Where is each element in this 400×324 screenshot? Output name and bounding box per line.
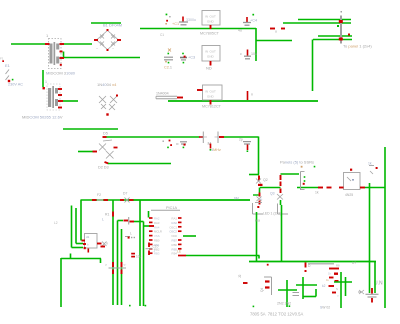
svg-text:Q4: Q4 xyxy=(260,288,264,292)
T1 pin xyxy=(45,43,50,45)
cap C15 marks xyxy=(131,254,141,259)
wire xyxy=(75,208,77,244)
svg-text:~: ~ xyxy=(96,47,98,51)
svg-text:IN OUT: IN OUT xyxy=(205,15,216,19)
capacitor C4 xyxy=(238,17,257,33)
cap C6 xyxy=(176,142,187,148)
svg-text:.1: .1 xyxy=(153,249,156,253)
JP1 green dot xyxy=(337,25,339,27)
wire xyxy=(281,205,283,262)
red dot xyxy=(267,264,269,266)
wire xyxy=(298,19,351,21)
U4 pin xyxy=(82,240,86,242)
capacitor C5 xyxy=(240,50,257,59)
svg-text:rea: rea xyxy=(255,219,260,223)
svg-text:LED 1 (2x2): LED 1 (2x2) xyxy=(263,212,281,216)
wire xyxy=(183,235,196,237)
wire xyxy=(64,57,141,59)
B2 pin dot xyxy=(106,113,108,115)
svg-text:k2: k2 xyxy=(322,284,326,288)
svg-text:F2: F2 xyxy=(97,193,101,197)
JP1 pin blob xyxy=(339,20,343,23)
svg-text:b: b xyxy=(87,243,89,247)
svg-text:4N25: 4N25 xyxy=(345,193,353,197)
pin dot xyxy=(305,270,307,272)
svg-text:L2: L2 xyxy=(54,221,58,225)
wire xyxy=(143,222,145,307)
red pin column right xyxy=(329,269,337,293)
svg-text:B1 DF04M: B1 DF04M xyxy=(103,23,122,28)
wire xyxy=(60,258,62,307)
wire DC rail xyxy=(140,28,256,30)
B1 pin dot xyxy=(107,49,109,51)
crystal Q1 xyxy=(199,132,224,153)
svg-text:+C4: +C4 xyxy=(250,19,257,23)
svg-text:GND: GND xyxy=(207,95,215,99)
svg-text:OSC2: OSC2 xyxy=(169,230,177,234)
U3 pin xyxy=(210,100,212,105)
svg-text:Panels (5) to SSRs: Panels (5) to SSRs xyxy=(280,160,314,165)
wire xyxy=(255,28,257,61)
capacitor C12 pin xyxy=(247,91,249,100)
svg-text:MC7805CT: MC7805CT xyxy=(200,31,220,35)
transistor Q4 bracket xyxy=(264,277,272,295)
wire long right xyxy=(384,147,386,308)
wire xyxy=(312,40,314,92)
svg-text:D7: D7 xyxy=(123,192,127,196)
Q4 pins xyxy=(265,280,270,282)
svg-text:o: o xyxy=(337,294,339,298)
wire xyxy=(315,289,317,297)
svg-text:MCLR: MCLR xyxy=(154,230,162,234)
green dot xyxy=(253,306,255,308)
connector JP1 bar xyxy=(340,16,342,44)
T2 pin xyxy=(58,88,62,90)
svg-text:RA4: RA4 xyxy=(154,225,160,229)
wire arm xyxy=(249,174,259,176)
net flag marks xyxy=(160,14,254,37)
optocoupler U6 xyxy=(344,169,361,197)
AC terminal E1 xyxy=(0,57,23,87)
svg-text:RB0: RB0 xyxy=(154,239,160,243)
U6 pin xyxy=(339,187,344,189)
svg-text:RA1: RA1 xyxy=(172,217,178,221)
wire long to driver xyxy=(186,255,260,257)
svg-text:C2.1: C2.1 xyxy=(164,66,172,70)
svg-text:1k: 1k xyxy=(368,162,372,166)
green dot xyxy=(289,305,291,307)
wire xyxy=(258,137,260,175)
diode D2 pin xyxy=(93,151,98,153)
wire corner xyxy=(258,256,260,259)
U5 right pin labels xyxy=(169,217,177,256)
filter cap C3 xyxy=(180,53,195,64)
svg-text:>: > xyxy=(105,263,107,267)
wire GND rail xyxy=(249,261,376,263)
diode cluster B2 xyxy=(99,96,117,110)
wire xyxy=(71,206,73,248)
wire xyxy=(112,216,114,305)
svg-text:1k: 1k xyxy=(315,191,319,195)
wire xyxy=(334,281,352,283)
red blob xyxy=(335,280,339,282)
T2 pin dot xyxy=(43,87,45,89)
gray dash xyxy=(358,291,362,293)
JP1 red dot xyxy=(348,34,350,36)
U4 diode mark xyxy=(102,242,107,247)
U4 pin dot xyxy=(84,247,86,249)
wire pin xyxy=(103,136,107,138)
svg-text:D: D xyxy=(308,264,311,268)
B2 red dot xyxy=(116,95,118,97)
svg-text:R8: R8 xyxy=(336,264,340,268)
svg-text:230V AC: 230V AC xyxy=(8,82,23,86)
wire xyxy=(144,225,150,227)
resistor R7 bar xyxy=(308,263,334,265)
svg-text:RB6: RB6 xyxy=(172,243,178,247)
B1 pin xyxy=(94,39,98,41)
wire xyxy=(63,100,78,102)
wire xyxy=(130,221,135,223)
wire xyxy=(118,220,124,222)
svg-text:1N4004: 1N4004 xyxy=(156,92,169,96)
cap C13 pin xyxy=(124,220,129,222)
svg-text:ND: ND xyxy=(206,66,212,71)
B1 pin dot xyxy=(107,29,109,31)
svg-text:Q2: Q2 xyxy=(263,178,268,182)
svg-text:D2 D3: D2 D3 xyxy=(98,166,109,170)
wire xyxy=(78,151,93,153)
R7 pin xyxy=(334,268,339,270)
wire xyxy=(340,272,342,308)
svg-text:1k: 1k xyxy=(328,272,332,276)
wire xyxy=(256,212,258,262)
svg-text:L: L xyxy=(261,197,263,201)
U4 pin xyxy=(97,243,102,245)
JP1 pin blob xyxy=(339,38,343,41)
svg-text:IN OUT: IN OUT xyxy=(205,50,216,54)
relay K1 bracket xyxy=(301,166,316,190)
svg-text:S: S xyxy=(336,287,338,291)
svg-text:MIDCOM 31080: MIDCOM 31080 xyxy=(46,71,76,76)
svg-text:MC7812CT: MC7812CT xyxy=(202,105,222,109)
wire VDD rail xyxy=(133,199,250,201)
svg-text:1N4004 x4: 1N4004 x4 xyxy=(97,82,117,87)
resistor R1 pin xyxy=(112,212,114,217)
U5 right pins xyxy=(178,218,186,256)
green dots bottom xyxy=(129,305,131,307)
wire xyxy=(296,284,317,286)
svg-text:7805 5A 7812 TO2 12V0.5A: 7805 5A 7812 TO2 12V0.5A xyxy=(250,311,303,316)
U1 pin xyxy=(210,25,212,29)
T2 pin xyxy=(58,100,63,102)
T1 pin dot xyxy=(60,64,62,66)
wire xyxy=(72,247,84,249)
svg-text:1: 1 xyxy=(46,33,49,38)
wire xyxy=(117,221,119,306)
wire xyxy=(369,183,371,293)
cap C13 plate xyxy=(128,217,130,225)
U4 pin xyxy=(83,243,86,245)
svg-text:GND: GND xyxy=(207,55,215,59)
fuse link F2 xyxy=(92,193,108,200)
svg-text:n: n xyxy=(106,242,108,246)
diode D6 xyxy=(156,92,183,99)
wire xyxy=(134,221,144,223)
svg-text:+C3: +C3 xyxy=(188,56,195,60)
wire xyxy=(278,289,297,291)
wire xyxy=(345,277,347,296)
svg-text:4u: 4u xyxy=(238,29,242,33)
svg-text:U?: U? xyxy=(352,261,356,265)
resistor R6 pins xyxy=(315,188,332,195)
U4 pin xyxy=(87,249,89,253)
svg-text:VDD: VDD xyxy=(171,234,177,238)
wire xyxy=(81,199,129,201)
green dot xyxy=(145,305,147,307)
D3 pin xyxy=(105,162,109,164)
labels right column xyxy=(326,264,340,298)
wire xyxy=(63,52,65,58)
misc opto marks xyxy=(368,162,378,175)
capacitor C14 xyxy=(366,288,379,303)
svg-text:PIC1A: PIC1A xyxy=(166,206,177,210)
wire xyxy=(121,229,123,305)
series link pins on rail xyxy=(270,28,275,30)
wire xyxy=(256,40,292,42)
wire stub xyxy=(70,254,72,259)
svg-text:SW 02: SW 02 xyxy=(320,306,330,310)
IC U5 PIC16F84 xyxy=(151,206,180,210)
wire cross1 xyxy=(286,280,288,307)
wire xyxy=(303,296,316,298)
wire xyxy=(76,243,83,245)
svg-text:c: c xyxy=(240,52,242,56)
T1 pin xyxy=(60,51,63,53)
svg-text:Q3: Q3 xyxy=(270,192,275,196)
JP1 gray dot xyxy=(341,11,343,13)
series link pin xyxy=(281,28,285,30)
svg-text:d1: d1 xyxy=(86,235,90,239)
equals mark xyxy=(293,293,300,296)
Q2 emitter bracket xyxy=(253,203,264,214)
diode mark xyxy=(359,290,364,294)
bridge rectifier B1 xyxy=(97,31,119,50)
svg-text:RA2: RA2 xyxy=(154,217,160,221)
wire xyxy=(374,262,376,294)
svg-text:RA3: RA3 xyxy=(154,221,160,225)
regulator U3 box xyxy=(203,85,223,100)
regulator U1 box xyxy=(202,11,220,26)
svg-text:u: u xyxy=(275,30,277,34)
pin stub xyxy=(305,263,307,268)
svg-text:C1: C1 xyxy=(160,33,164,37)
cap C10 xyxy=(146,243,159,256)
wire xyxy=(112,200,114,212)
svg-text:RB7: RB7 xyxy=(172,239,178,243)
U5 left pin labels xyxy=(154,217,162,256)
wire end stub xyxy=(100,259,102,264)
wire base xyxy=(260,187,281,189)
filter cap C2 xyxy=(164,49,173,70)
svg-text:2N2 2N2: 2N2 2N2 xyxy=(277,302,291,306)
PIC pin xyxy=(149,225,154,227)
caps C8 C9 on rails xyxy=(105,262,126,274)
svg-text:E1: E1 xyxy=(5,63,11,68)
T1 pin xyxy=(60,57,65,59)
T2 pin xyxy=(58,94,62,96)
U2 pin xyxy=(210,61,212,66)
U5 left pins xyxy=(149,218,153,253)
wire xyxy=(224,136,259,138)
svg-text:D5: D5 xyxy=(103,132,108,136)
wire OSC xyxy=(106,136,199,138)
svg-text:~: ~ xyxy=(112,47,114,51)
svg-text:1k: 1k xyxy=(326,278,330,282)
svg-text:GND: GND xyxy=(207,20,215,24)
svg-text:2p: 2p xyxy=(239,138,243,142)
transformer T1 xyxy=(46,33,61,69)
svg-text:IN OUT: IN OUT xyxy=(205,90,216,94)
wire cross2 xyxy=(302,277,304,299)
svg-text:6M: 6M xyxy=(234,197,239,201)
svg-text:n: n xyxy=(251,93,253,97)
wire xyxy=(61,258,101,260)
Q3 chain xyxy=(270,174,299,205)
wire xyxy=(297,187,318,189)
svg-text:J2: J2 xyxy=(238,274,242,278)
wire xyxy=(283,22,351,24)
D2 red mark xyxy=(114,147,118,149)
wire xyxy=(365,187,385,189)
wire xyxy=(63,128,118,130)
wire xyxy=(42,70,44,87)
diode D7 xyxy=(120,192,130,203)
wire xyxy=(11,43,45,45)
B1 pin xyxy=(117,39,121,41)
svg-text:10u: 10u xyxy=(136,255,142,259)
svg-text:L: L xyxy=(102,218,104,222)
Q2 chain xyxy=(253,176,268,209)
wire xyxy=(139,200,141,306)
wire xyxy=(108,163,171,165)
svg-text:4MHz: 4MHz xyxy=(211,148,221,152)
IC U4 box xyxy=(85,234,98,249)
capacitor C1 xyxy=(172,17,196,27)
svg-text:To panel 1 (2x4): To panel 1 (2x4) xyxy=(343,44,372,49)
wire 12V rail xyxy=(168,100,318,102)
svg-text:VSS: VSS xyxy=(154,234,160,238)
svg-text:LE: LE xyxy=(177,250,182,254)
U3 pin xyxy=(197,89,203,91)
wire xyxy=(64,43,93,45)
svg-text:F1: F1 xyxy=(0,57,4,61)
misc marks near PIC left xyxy=(101,232,136,247)
red blob xyxy=(334,273,338,275)
svg-text:10u: 10u xyxy=(251,52,257,56)
wire xyxy=(313,39,352,41)
transformer T2 xyxy=(45,80,60,110)
T1 pin xyxy=(60,43,65,45)
wire xyxy=(318,35,352,37)
wire xyxy=(91,22,121,24)
Q4 pin xyxy=(265,286,270,288)
cap C11 xyxy=(239,138,251,153)
pin xyxy=(243,282,248,284)
regulator U2 box xyxy=(202,46,220,62)
cap C7 marks xyxy=(163,140,173,149)
wire stub xyxy=(148,211,150,218)
svg-text:MIDCOM 50265 12.6V: MIDCOM 50265 12.6V xyxy=(22,114,63,119)
svg-text:+C1: +C1 xyxy=(172,22,179,26)
diode D2 D3 cluster xyxy=(99,140,114,159)
U6 pin xyxy=(360,187,365,189)
svg-text:L: L xyxy=(130,232,132,236)
Q3 emitter bracket xyxy=(278,204,289,215)
T2 pin xyxy=(58,107,62,109)
svg-text:<·: <· xyxy=(124,263,127,267)
svg-text:RA0: RA0 xyxy=(172,221,178,225)
svg-text:3300u: 3300u xyxy=(186,18,196,22)
svg-text:OSC1: OSC1 xyxy=(169,225,177,229)
wire xyxy=(80,200,82,241)
svg-text:R1: R1 xyxy=(105,213,109,217)
svg-text:1: 1 xyxy=(45,80,47,84)
rail pin xyxy=(129,199,134,201)
